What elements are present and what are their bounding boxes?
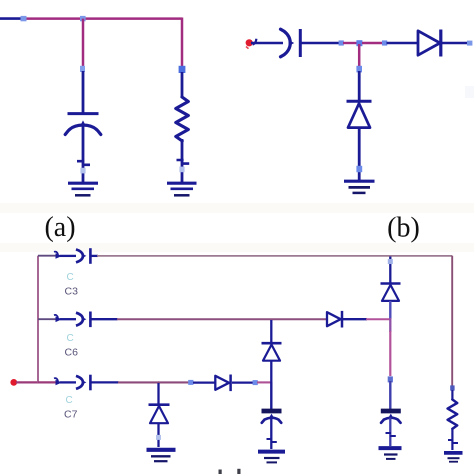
pin tick above x452 ground <box>448 440 458 443</box>
wire: vertical magenta to capacitor branch <box>82 19 85 67</box>
ground at x158 (c) <box>147 450 176 461</box>
diode D3 (c) row2, pointing right <box>327 311 342 328</box>
wire: resistor to ground x452 <box>451 429 453 451</box>
pin marker left of C6 <box>54 315 62 322</box>
wire: row3 plum to shunt junction (c) <box>118 381 159 383</box>
wire: C3 left pin <box>60 255 76 257</box>
wire: port to capacitor (b) <box>251 42 283 45</box>
wire: C3 right pin <box>91 255 98 257</box>
ground (a) under resistor <box>167 183 197 195</box>
pin tick on capacitor ground lead <box>77 161 90 165</box>
node: connector on x390 column <box>388 376 393 382</box>
wire: plum into x271 junction <box>257 381 271 383</box>
faint scan band lower <box>0 243 474 252</box>
svg-text:C3: C3 <box>65 286 79 298</box>
node: connector above ground (b) <box>356 166 362 172</box>
wire: x390 below row2, plum <box>389 318 391 376</box>
label (a) <box>44 212 75 243</box>
node: faint connector above resistor ground <box>179 167 184 173</box>
wire: magenta vertical below junction (b) <box>358 44 361 67</box>
wire: to diode (b) <box>387 42 419 45</box>
wire: C6 left pin <box>60 318 76 320</box>
node: connector on resistor branch <box>179 66 186 73</box>
label C of C6 <box>67 333 74 344</box>
diode D7 (c) at x390, pointing up <box>381 284 401 301</box>
wire: vertical bus (c) <box>37 256 39 383</box>
pin hook after port (b) <box>253 39 257 45</box>
wire: x390 diode to row2 junction <box>389 301 391 319</box>
diode D1 (b) series, pointing right <box>418 30 441 57</box>
wire: x158 diode to ground <box>157 424 159 448</box>
wire: navy down to capacitor <box>82 71 85 113</box>
wire: row3 plum after junction (c) <box>158 381 189 383</box>
pin tick on resistor ground lead <box>177 160 190 164</box>
capacitor at x390 (c) vertical <box>381 411 401 423</box>
wire: port to bus (c) <box>16 381 39 383</box>
wire: C7 right pin navy <box>91 381 119 383</box>
wire: diode to plum row2 right (c) <box>343 318 367 320</box>
shunt branch at x158: wire down <box>157 383 159 405</box>
diode D4 (c) row3, pointing right <box>215 375 230 392</box>
diode D5 (c) shunt at x158, pointing up <box>149 405 170 424</box>
capacitor C7 (c) <box>76 375 90 391</box>
pin marker left of C3 <box>54 252 62 259</box>
capacitor C6 (c) <box>76 312 90 328</box>
wire: top horizontal (a) <box>27 17 183 20</box>
wire: row1 from bus to C3 (c) <box>38 255 57 257</box>
label C3 <box>65 286 79 298</box>
wire: x390 navy to capacitor <box>389 381 391 409</box>
wire: x271 diode to row3 junction <box>270 361 272 382</box>
wire: navy to row3 diode <box>193 381 215 383</box>
resistor R (c) at x452 <box>448 400 458 429</box>
label C of C3 <box>67 272 74 283</box>
wire: x271 capacitor to ground <box>270 418 272 450</box>
ground at x390 (c) <box>379 448 402 459</box>
node: junction at top of C branch <box>80 16 86 21</box>
label (c) partially cut at bottom <box>219 469 241 474</box>
wire: C6 right pin navy <box>91 318 118 320</box>
port: red input node (c) <box>10 379 17 386</box>
svg-text:(a): (a) <box>44 212 75 243</box>
svg-text:C7: C7 <box>64 409 78 421</box>
wire: shunt diode to ground (b) <box>358 128 361 180</box>
node: connector left of junction (b) <box>339 40 344 45</box>
wire: row2 plum to diode (c) <box>117 318 327 320</box>
label C7 <box>64 409 78 421</box>
node: connector row3 after diode <box>253 380 258 385</box>
label (b) <box>387 213 420 244</box>
port: red input node (b) <box>246 39 253 49</box>
resistor R (a) <box>176 97 189 141</box>
svg-text:C: C <box>67 272 74 283</box>
capacitor (b) polarized, horizontal <box>281 29 301 57</box>
node: faint connector above x158 ground <box>156 435 161 440</box>
node: connector on left wire <box>21 16 27 21</box>
wire: navy down to shunt diode (b) <box>358 71 361 101</box>
x390 column: wire from row1 down <box>389 257 391 285</box>
wire: magenta segment right of junction (b) <box>362 42 383 44</box>
wire: x271 row3 junction to capacitor <box>270 382 272 409</box>
wire: x390 capacitor to ground <box>389 418 391 447</box>
node: junction square (b) <box>356 40 362 46</box>
x271 column: wire from row2 down to diode <box>270 320 272 344</box>
node: connector on shunt branch (b) <box>356 66 362 73</box>
ground (a) under capacitor <box>68 183 98 195</box>
wire: navy to resistor x452 <box>451 390 453 400</box>
node: row2 junction on bus (c) <box>38 318 57 320</box>
ground (b) <box>344 181 375 193</box>
wire: resistor to ground <box>181 139 184 183</box>
pin marker left of C7 <box>54 378 62 385</box>
wire: magenta segment to junction (b) <box>343 42 357 44</box>
wire: navy down to resistor <box>181 72 184 97</box>
wire: C7 left pin <box>60 381 76 383</box>
capacitor C3 (c) <box>76 248 90 264</box>
faint mark right edge <box>465 86 474 98</box>
diode D6 (c) at x271, pointing up <box>262 343 282 361</box>
node: connector on capacitor branch <box>80 66 85 72</box>
wire: vertical magenta to resistor branch <box>181 18 184 67</box>
pin tick above x271 ground <box>267 439 277 442</box>
ground at x452 (c) <box>444 453 463 462</box>
wire: diode to right edge (b) <box>442 42 468 45</box>
svg-text:(b): (b) <box>387 213 420 244</box>
wire: row2 plum into x390 column <box>366 318 390 320</box>
node: connector at right end (b) <box>467 41 472 46</box>
diode D2 (b) shunt, pointing up <box>347 101 372 127</box>
wire: row3 from bus to C7 (c) <box>38 381 57 383</box>
svg-text:C: C <box>67 333 74 344</box>
wire: capacitor to junction (b) <box>301 42 339 45</box>
ground at x271 (c) <box>258 452 285 463</box>
node: connector row3 before diode <box>188 380 193 385</box>
capacitor C (a) polarized, vertical <box>65 114 101 135</box>
wire: row1 long pink to right corner (c) <box>97 255 452 257</box>
wire: capacitor to ground <box>82 125 85 183</box>
svg-text:C6: C6 <box>65 347 79 359</box>
faint scan band upper <box>0 203 474 213</box>
x452 column: plum vertical from row1 corner <box>451 256 453 386</box>
pin tick above x390 ground <box>386 433 396 436</box>
capacitor at x271 (c) vertical <box>262 411 282 423</box>
node: faint connector below row1 on x390 <box>388 259 393 264</box>
wire: diode to connector row3 (c) <box>232 381 253 383</box>
node: connector on x452 column <box>450 385 454 390</box>
svg-text:C: C <box>66 395 73 406</box>
label C of C7 <box>66 395 73 406</box>
node: faint connector above ground <box>80 168 85 174</box>
node: connector right of junction (b) <box>382 40 387 45</box>
label C6 <box>65 347 79 359</box>
wire: left navy stub <box>0 17 21 20</box>
